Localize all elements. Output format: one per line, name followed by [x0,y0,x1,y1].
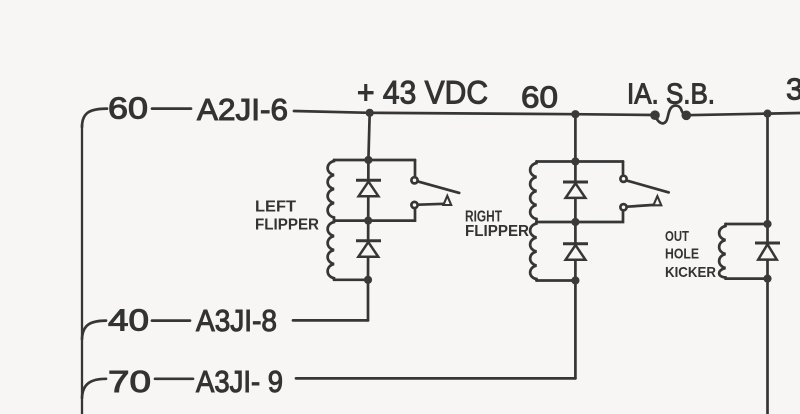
switch S1 left flipper blade [418,181,459,193]
coil K2 right flipper upper winding [530,162,536,223]
svg-text:A2JI-6: A2JI-6 [197,92,288,127]
wire A2JI-6 to +43VDC node [294,111,370,113]
wire left cable bus vertical [81,125,83,414]
wire top-left corner hook into net 60 [82,109,107,127]
fuse F1 right terminal dot [682,111,692,121]
wire right flipper middle rail and riser to NO contact [537,211,624,222]
diode CR5 out hole kicker: triangle [758,244,777,259]
wire right flipper bottom rail [537,279,576,282]
diode CR4 right flipper lower: triangle [566,245,586,260]
svg-text:IA. S.B.: IA. S.B. [627,79,715,111]
svg-text:OUT: OUT [665,228,689,245]
switch S1 left flipper blade rest triangle [443,196,451,205]
svg-text:LEFT: LEFT [255,199,296,216]
diode CR3 right flipper upper: triangle [566,183,586,198]
junction node at right flipper tap [571,110,579,118]
junction node left flipper bottom [364,276,372,284]
junction node at out hole kicker tap [763,110,771,118]
svg-text:60: 60 [521,80,558,115]
wire hook into net 70 [82,379,106,398]
switch S1 lower contact circle [411,202,417,208]
coil K2 right flipper lower winding [530,222,536,281]
junction node out hole kicker top [763,220,771,228]
wire dash between 70 and A3JI-9 [155,377,193,380]
wire dash between 60 and A2JI-6 [152,107,191,110]
wire right flipper main vertical through diodes [574,162,577,281]
wire hook into net 40 [82,321,106,339]
switch S1 left flipper lower contact link [418,202,444,206]
wire left flipper feed vertical [368,113,369,160]
wire A3JI-9 run to right flipper coil [296,377,575,380]
diode CR1 left flipper upper: triangle [359,182,379,197]
wire left flipper middle rail and riser to NO contact [334,209,415,221]
wire left flipper bottom rail [334,278,368,281]
switch S2 upper contact circle [620,176,626,182]
junction node left flipper top [364,156,372,164]
wire out hole kicker top rail [726,223,768,226]
junction node out hole kicker bottom [763,275,771,283]
diode CR3 right flipper upper: cathode bar [563,181,588,184]
junction node right flipper bottom [571,276,579,284]
wire left flipper main vertical through diodes [367,160,370,280]
wire right flipper feed vertical [574,114,577,161]
svg-text:KICKER: KICKER [665,264,716,281]
junction node right flipper middle [571,218,579,226]
wire top bus +43VDC node to fuse [370,113,655,115]
wire right flipper bottom drop to net 70 [574,281,577,379]
coil K3 out hole kicker winding [719,224,725,279]
wire left flipper top rail [334,159,415,162]
wire left flipper switch feed riser [414,160,417,177]
junction node left flipper middle [364,217,372,225]
switch S2 lower contact circle [620,204,626,210]
wire dash between 40 and A3JI-8 [152,319,190,322]
svg-text:3: 3 [786,72,800,107]
svg-text:A3JI-8: A3JI-8 [196,303,277,338]
svg-text:70: 70 [108,364,151,399]
wire fuse to right edge [687,113,800,115]
junction node right flipper top [571,157,579,165]
wire out hole kicker bottom rail [726,277,768,280]
svg-text:HOLE: HOLE [665,245,699,262]
wire right flipper top rail [537,160,624,163]
svg-text:+ 43 VDC: + 43 VDC [357,75,488,111]
diode CR1 left flipper upper: cathode bar [356,179,381,182]
switch S2 right flipper lower contact link [627,205,654,207]
diode CR4 right flipper lower: cathode bar [563,242,588,245]
svg-text:FLIPPER: FLIPPER [465,223,529,240]
diode CR2 left flipper lower: cathode bar [356,239,381,242]
fuse F1 left terminal dot [650,110,660,120]
junction node at +43VDC tap [366,109,374,117]
switch S2 right flipper blade rest triangle [653,196,661,205]
fuse F1 1A slow-blow squiggle [655,106,687,124]
diode CR2 left flipper lower: triangle [358,242,378,257]
wire out hole kicker vertical [766,114,769,414]
wire right flipper switch feed riser [622,162,625,176]
switch S1 upper contact circle [411,177,417,183]
wire left flipper bottom drop to net 40 [367,280,370,321]
svg-text:40: 40 [108,303,149,338]
svg-text:A3JI- 9: A3JI- 9 [196,364,283,399]
coil K1 left flipper lower winding [328,221,334,280]
wire A3JI-8 run to left flipper coil [293,319,368,322]
svg-text:60: 60 [108,90,148,125]
svg-text:FLIPPER: FLIPPER [255,217,319,234]
coil K1 left flipper upper winding [328,160,334,221]
switch S2 right flipper blade [626,180,668,192]
diode CR5 out hole kicker: cathode bar [755,242,780,245]
